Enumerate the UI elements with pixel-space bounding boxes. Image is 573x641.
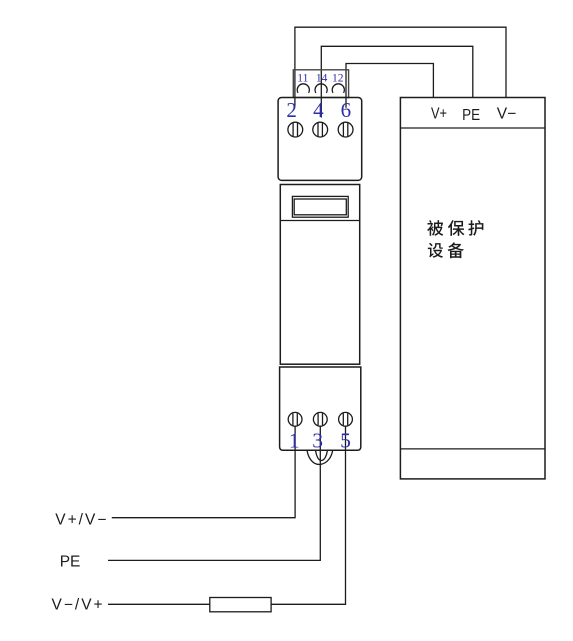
terminal clamp arc 12 (332, 84, 344, 93)
label char 设 (428, 243, 443, 258)
svg-text:V+/V−: V+/V− (55, 512, 108, 529)
screw terminal 6 (338, 122, 353, 137)
SPD module top cover (278, 98, 362, 181)
svg-text:4: 4 (313, 98, 324, 122)
screw terminal 1 (288, 412, 302, 426)
svg-text:PE: PE (60, 554, 81, 571)
label char 被 (427, 220, 443, 236)
display window inner (294, 199, 346, 215)
svg-text:3: 3 (312, 429, 323, 453)
svg-text:11: 11 (297, 72, 308, 84)
protected device bottom line (400, 448, 545, 450)
protected device box (400, 98, 545, 479)
wire terminal 3 to PE input (108, 426, 320, 560)
fuse F1 (210, 598, 271, 612)
terminal clamp arc 11 (297, 84, 309, 93)
label char 保 (448, 220, 464, 236)
screw terminal 4 (313, 122, 328, 137)
display window outer (292, 196, 348, 217)
screw terminal 5 (339, 412, 353, 426)
svg-text:1: 1 (289, 429, 300, 453)
svg-text:2: 2 (286, 98, 297, 122)
wire terminal 1 to V+/V- input (112, 426, 295, 518)
wire terminal 12 to V+ of protected device (346, 64, 433, 108)
screw terminal 2 (288, 122, 303, 137)
SPD module body (280, 185, 359, 365)
wire terminal 5 to V-/V+ input through fuse (108, 426, 346, 604)
svg-text:PE: PE (462, 107, 480, 124)
label char 护 (468, 220, 483, 236)
svg-text:12: 12 (332, 72, 344, 84)
protected device header line (400, 127, 545, 129)
terminal clamp arc 14 (315, 84, 327, 93)
svg-text:14: 14 (316, 72, 328, 84)
label char 备 (448, 242, 464, 258)
svg-text:6: 6 (341, 98, 352, 122)
wire terminal 14 to PE of protected device (321, 46, 473, 117)
screw terminal 3 (313, 412, 327, 426)
SPD module bottom cover (280, 367, 361, 450)
mounting notch inner arc (316, 451, 328, 461)
wire terminal 11 to V- of protected device (295, 27, 506, 106)
svg-text:5: 5 (340, 429, 351, 453)
body seam line (280, 220, 359, 222)
svg-text:V−/V+: V−/V+ (52, 597, 105, 614)
mounting notch outer arc (307, 451, 333, 465)
auxiliary terminal block 11/14/12 (293, 70, 348, 98)
svg-text:V+: V+ (431, 106, 447, 123)
svg-text:V−: V− (497, 106, 517, 123)
